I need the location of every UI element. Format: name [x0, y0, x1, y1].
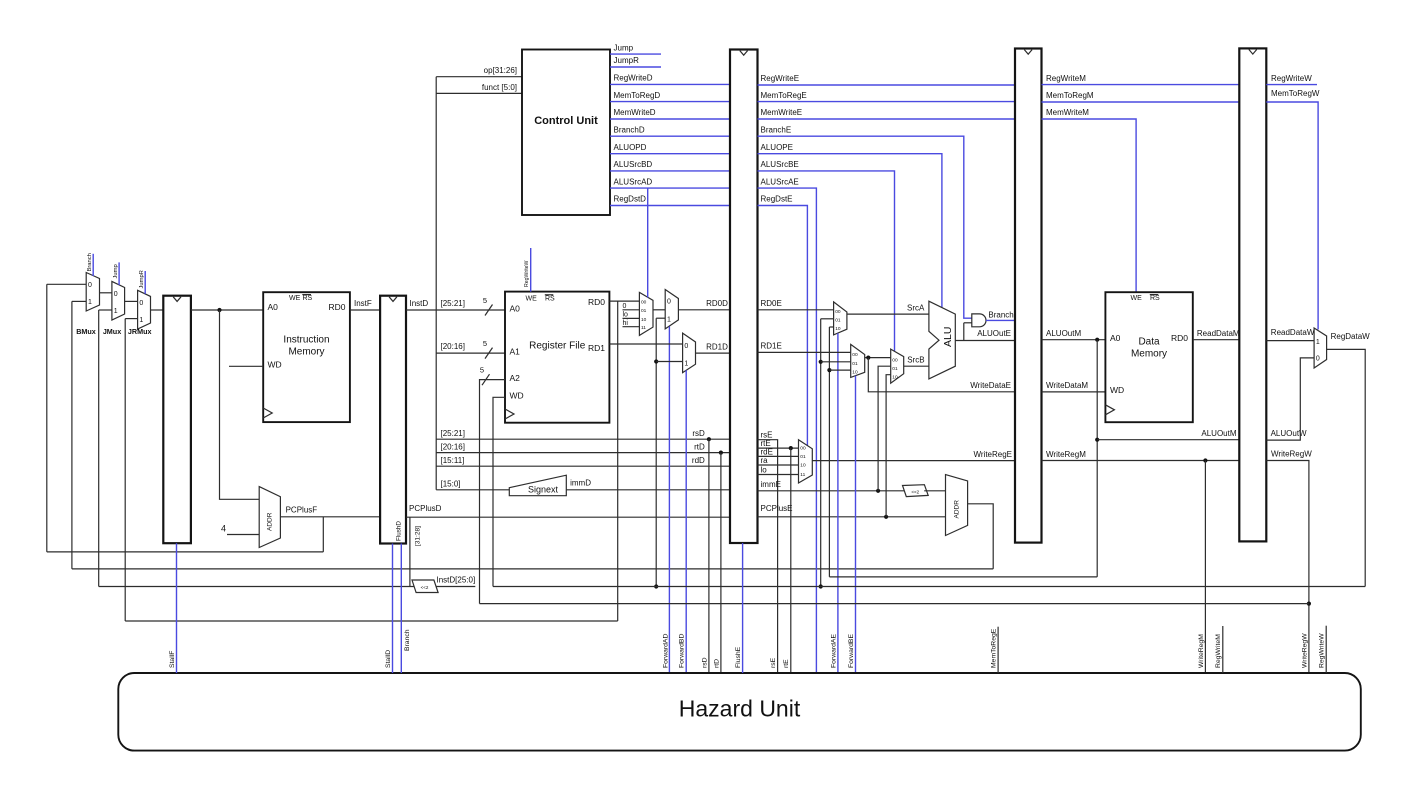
svg-text:A2: A2: [510, 373, 521, 383]
svg-text:MemToRegE: MemToRegE: [991, 628, 998, 668]
svg-text:ALUSrcAE: ALUSrcAE: [761, 177, 799, 186]
svg-text:WriteRegW: WriteRegW: [1271, 450, 1312, 459]
wire WriteRegW loopback to RF A2 (L6): [480, 603, 1309, 605]
svg-text:10: 10: [641, 317, 647, 323]
wire rs value down to JRMux loop (L5): [617, 301, 619, 621]
svg-text:PCPlusF: PCPlusF: [286, 506, 318, 515]
svg-text:RD0: RD0: [328, 302, 345, 312]
mux hi/lo (4-way): [639, 292, 653, 335]
wire riser BMux input 0: [46, 284, 48, 552]
svg-text:Instruction: Instruction: [283, 335, 329, 346]
wire RD1 to RD1D mux: [609, 343, 682, 345]
wire rsD down to Hazard Unit: [708, 439, 710, 672]
svg-text:ALUSrcBD: ALUSrcBD: [614, 160, 653, 169]
wire ForwardAD select from Hazard Unit: [668, 327, 670, 673]
wire immD to DE register: [566, 489, 730, 491]
wire op[31:26] into Control Unit: [436, 76, 522, 78]
block Data Memory: [1105, 292, 1192, 422]
wire ForwardBE select from Hazard Unit: [855, 376, 857, 673]
wire rsE down to Hazard Unit: [758, 440, 778, 673]
wire MemToRegW down to RegData mux select: [1266, 102, 1318, 330]
svg-text:ALU: ALU: [942, 327, 954, 347]
wire into SrcA mux input 10: [829, 326, 833, 328]
wire JumpR: [610, 66, 661, 68]
svg-text:RegWriteW: RegWriteW: [1271, 74, 1312, 83]
svg-text:ForwardBE: ForwardBE: [848, 634, 855, 668]
svg-text:MemToRegW: MemToRegW: [1271, 89, 1320, 98]
svg-text:01: 01: [835, 318, 841, 324]
wire ALUOutM to Data Memory A0: [1042, 339, 1106, 341]
svg-text:ADDR: ADDR: [267, 512, 274, 531]
wire WriteRegW down to Hazard Unit: [1266, 461, 1309, 673]
mux WriteRegE (4-way): [799, 440, 813, 483]
wire JRMux output to PC register: [151, 309, 164, 311]
svg-text:MemWriteD: MemWriteD: [614, 108, 656, 117]
wire ReadDataM to MW register: [1193, 339, 1240, 341]
wire PCPlusF to FlushD register: [280, 516, 380, 518]
svg-text:RD1D: RD1D: [706, 342, 728, 351]
svg-text:10: 10: [852, 370, 858, 376]
wire 0 stub into hi/lo mux: [623, 309, 640, 311]
svg-text:5: 5: [480, 366, 484, 375]
wire WriteDataM to Data Memory WD: [1042, 391, 1106, 393]
svg-text:0: 0: [114, 291, 118, 298]
svg-text:0: 0: [1316, 356, 1320, 363]
svg-text:WE: WE: [526, 295, 538, 302]
svg-text:rdD: rdD: [692, 456, 705, 465]
wire MemWriteD: [610, 118, 730, 120]
wire lo into WriteReg mux: [758, 474, 799, 476]
svg-text:1: 1: [114, 308, 118, 315]
svg-text:1: 1: [1316, 339, 1320, 346]
svg-text:ALUOPE: ALUOPE: [761, 143, 793, 152]
svg-text:<<2: <<2: [911, 489, 919, 494]
svg-text:RegWriteW: RegWriteW: [524, 260, 530, 287]
svg-text:MemToRegD: MemToRegD: [614, 91, 661, 100]
svg-text:[20:16]: [20:16]: [441, 443, 465, 452]
svg-text:lo: lo: [761, 466, 768, 475]
svg-text:WriteRegM: WriteRegM: [1046, 450, 1086, 459]
mux RegDataW: [1314, 328, 1327, 368]
wire rtE down to Hazard Unit: [790, 448, 792, 672]
svg-text:JRMux: JRMux: [128, 327, 152, 336]
mux SrcB select: [891, 349, 904, 383]
wire StallD from FlushD register to Hazard Unit: [392, 544, 394, 674]
overline DM RS: [1150, 294, 1159, 296]
wire ALUOutE to EM register: [955, 340, 1015, 342]
junction writeback forward: [819, 360, 823, 364]
svg-text:ReadDataM: ReadDataM: [1197, 329, 1240, 338]
junction rtD: [719, 451, 723, 455]
wire ra into WriteReg mux: [758, 464, 799, 466]
svg-text:RD0D: RD0D: [706, 299, 728, 308]
svg-text:ForwardAE: ForwardAE: [830, 634, 837, 668]
svg-text:11: 11: [641, 325, 646, 331]
svg-text:[15:0]: [15:0]: [441, 480, 461, 489]
wire ALUOutM down (forward + MW): [1096, 340, 1098, 577]
adder PCPlusF (ADDR): [259, 487, 280, 548]
svg-text:10: 10: [892, 375, 898, 381]
wire into JMux input 1: [99, 309, 112, 311]
svg-text:StallD: StallD: [385, 650, 392, 668]
svg-text:Data: Data: [1138, 337, 1160, 348]
svg-text:ADDR: ADDR: [954, 500, 961, 519]
wire RegWriteW blue stub into RF WE: [530, 248, 532, 292]
junction ALUOutM lower: [1095, 438, 1099, 442]
adder branch (ADDR): [946, 475, 968, 536]
wire RegDataW down: [1327, 349, 1366, 586]
wire SrcA to ALU: [847, 313, 929, 315]
wire riser JRMux input 1: [124, 319, 126, 621]
wire into BMux input 1: [72, 300, 86, 302]
block Signext: [509, 475, 566, 496]
svg-text:10: 10: [835, 326, 841, 332]
block Instruction Memory: [263, 292, 350, 422]
svg-text:rtD: rtD: [713, 659, 720, 668]
svg-text:[31:28]: [31:28]: [414, 526, 421, 546]
svg-text:WriteRegE: WriteRegE: [973, 450, 1012, 459]
wire rtD down to Hazard Unit: [720, 453, 722, 673]
junction PC line: [217, 308, 221, 312]
mux RD1D forward: [683, 333, 696, 373]
wire RegWriteW stub into Hazard Unit: [1325, 626, 1327, 673]
block Register File: [505, 292, 609, 423]
wire branch target down to loopback L2: [968, 504, 994, 569]
wire PCPlusE up to SrcB mux input 10: [886, 375, 891, 517]
svg-text:RD0: RD0: [588, 297, 605, 307]
wire lo stub into hi/lo mux: [623, 317, 640, 319]
svg-text:00: 00: [800, 446, 806, 452]
wire rtE into WriteReg mux: [758, 447, 799, 449]
svg-text:0: 0: [684, 343, 688, 350]
wire FlushE from DE register to Hazard Unit: [742, 543, 744, 673]
svg-text:StallF: StallF: [169, 651, 176, 668]
wire into SrcB mux input 01: [821, 361, 851, 363]
wire RegWriteM stub into Hazard Unit: [1222, 626, 1224, 673]
svg-text:ForwardBD: ForwardBD: [679, 634, 686, 668]
wire ALUSrcBD: [610, 170, 730, 172]
wire ALUSrcAD: [610, 187, 730, 189]
svg-text:RegDstD: RegDstD: [614, 195, 647, 204]
wire RD1E to SrcB mux: [758, 351, 851, 353]
svg-text:RD0: RD0: [1171, 333, 1188, 343]
junction decode forward: [654, 359, 658, 363]
svg-text:hi: hi: [623, 320, 629, 327]
svg-text:InstD: InstD: [410, 299, 429, 308]
svg-text:PCPlusE: PCPlusE: [761, 504, 793, 513]
svg-text:BranchE: BranchE: [761, 125, 792, 134]
svg-text:A1: A1: [510, 347, 521, 357]
wire PC+4 loopback to BMux0 (L1): [47, 551, 324, 553]
svg-text:Jump: Jump: [113, 264, 119, 278]
wire PCPlusD: [406, 516, 730, 518]
svg-text:1: 1: [88, 299, 92, 306]
svg-text:00: 00: [892, 357, 898, 363]
svg-text:A0: A0: [510, 303, 521, 313]
svg-text:1: 1: [139, 317, 143, 324]
svg-text:0: 0: [88, 282, 92, 289]
wire [20:16] to Register File A1: [436, 352, 505, 354]
svg-text:InstF: InstF: [354, 299, 372, 308]
svg-text:ALUSrcAD: ALUSrcAD: [614, 177, 653, 186]
wire MemToRegD: [610, 101, 730, 103]
svg-text:RegDstE: RegDstE: [761, 195, 793, 204]
svg-text:[20:16]: [20:16]: [441, 342, 465, 351]
wire riser BMux input 1: [71, 301, 73, 569]
svg-text:PCPlusD: PCPlusD: [409, 504, 442, 513]
svg-text:rsD: rsD: [692, 429, 705, 438]
wire RD1D to DE register: [696, 352, 731, 354]
junction rsD: [707, 437, 711, 441]
svg-text:[15:11]: [15:11]: [441, 456, 465, 465]
svg-text:immE: immE: [761, 480, 781, 489]
svg-text:Jump: Jump: [614, 43, 634, 52]
svg-text:JumpR: JumpR: [614, 56, 640, 65]
wire RD0E to SrcA mux: [758, 309, 834, 311]
svg-text:ra: ra: [761, 456, 769, 465]
wire WriteDataE to EM register: [868, 358, 1015, 392]
svg-text:WE: WE: [289, 295, 301, 302]
svg-text:A0: A0: [1110, 333, 1121, 343]
svg-text:ALUOutW: ALUOutW: [1271, 429, 1307, 438]
svg-text:InstD[25:0]: InstD[25:0]: [437, 576, 476, 585]
svg-text:WD: WD: [1110, 385, 1124, 395]
svg-text:WriteDataM: WriteDataM: [1046, 381, 1088, 390]
wire WriteRegW riser to RF A2: [480, 380, 506, 604]
svg-text:01: 01: [800, 454, 806, 460]
svg-text:JumpR: JumpR: [139, 270, 145, 288]
junction WriteDataE tap: [866, 356, 870, 360]
junction ALUOutM: [1095, 338, 1099, 342]
svg-text:RegDataW: RegDataW: [1331, 332, 1371, 341]
wire constant 4 into adder: [227, 534, 259, 536]
wire PC down to PCPlusF adder input: [220, 310, 260, 499]
wire ForwardBD select from Hazard Unit: [685, 370, 687, 672]
svg-text:ALUOPD: ALUOPD: [614, 143, 647, 152]
wire into SrcA mux input 01: [821, 318, 834, 320]
wire ALUOutW to RegData mux: [1266, 358, 1314, 440]
svg-text:Branch: Branch: [87, 253, 93, 271]
mux SrcA forward: [834, 302, 847, 335]
wire ForwardAE select from Hazard Unit: [837, 333, 839, 672]
mux JMux: [112, 281, 125, 320]
svg-text:Hazard Unit: Hazard Unit: [679, 695, 801, 721]
wire RegWriteD: [610, 83, 730, 85]
svg-text:RD1: RD1: [588, 343, 605, 353]
svg-text:WD: WD: [268, 360, 282, 370]
wire into SrcB mux input 10: [829, 369, 850, 371]
wire RegDataW riser to RF WD: [493, 397, 505, 586]
wire RegDstD: [610, 205, 730, 207]
svg-text:Signext: Signext: [528, 484, 559, 494]
svg-text:<<2: <<2: [421, 585, 429, 590]
register MEM/WB: [1239, 48, 1266, 541]
wire into BMux input 0: [47, 283, 86, 285]
wire writeback value riser (decode forwards): [655, 318, 657, 586]
svg-text:rsD: rsD: [701, 657, 708, 668]
wire PCPlusE to branch adder: [758, 516, 946, 518]
block Hazard Unit: [118, 673, 1361, 751]
wire JMux output to JRMux0: [125, 300, 138, 302]
wire into RD0D mux input 1: [656, 317, 665, 319]
svg-text:11: 11: [800, 472, 805, 478]
wire WriteRegE to EM register: [812, 460, 1015, 462]
wire JumpR select stub into JRMux: [144, 271, 146, 294]
shifter branch <<2: [903, 485, 929, 497]
wire RegWriteE: [758, 84, 1016, 86]
wire WriteRegM down to Hazard Unit: [1204, 461, 1206, 673]
register PC: [163, 296, 191, 544]
wire branch target loopback to BMux1 (L2): [72, 568, 993, 570]
svg-text:[25:21]: [25:21]: [441, 299, 465, 308]
wire ALU zero to AND gate: [963, 323, 965, 341]
wire jump target loopback to JMux1 (L3): [99, 586, 476, 588]
svg-text:00: 00: [641, 300, 647, 306]
svg-text:0: 0: [139, 300, 143, 307]
wire [31:28] tap down to jump target: [409, 517, 411, 586]
wire RD0 to hi/lo mux: [609, 300, 639, 302]
wire ALUOutM forward riser: [828, 327, 830, 577]
svg-text:ForwardAD: ForwardAD: [662, 634, 669, 668]
wire rtD: [436, 452, 730, 454]
svg-text:01: 01: [852, 361, 858, 367]
wire BranchE to AND gate: [758, 136, 972, 318]
junction immE: [876, 489, 880, 493]
junction WriteRegW loop: [1307, 602, 1311, 606]
wire immE: [758, 490, 906, 492]
wire into AND gate lower input: [964, 322, 972, 324]
svg-text:Memory: Memory: [288, 347, 324, 358]
wire writeback forward riser (execute): [820, 319, 822, 587]
svg-text:RegWriteW: RegWriteW: [1319, 633, 1326, 668]
shifter jump <<2: [412, 580, 438, 593]
svg-text:10: 10: [800, 463, 806, 469]
wire InstF: [350, 309, 380, 311]
svg-text:MemToRegM: MemToRegM: [1046, 91, 1094, 100]
wire RegDstE to WriteReg mux select: [758, 206, 808, 446]
wire into RD1D mux input 1: [656, 361, 682, 363]
svg-text:MemToRegE: MemToRegE: [761, 91, 807, 100]
wire RegWriteW stub: [1266, 84, 1317, 86]
junction PCPlusE: [884, 515, 888, 519]
wire Branch to EM register: [986, 319, 1015, 321]
svg-text:SrcA: SrcA: [907, 304, 925, 313]
svg-text:01: 01: [641, 308, 647, 314]
wire hi stub into hi/lo mux: [623, 326, 640, 328]
junction WriteRegM: [1203, 458, 1207, 462]
svg-text:ALUOutM: ALUOutM: [1201, 429, 1236, 438]
svg-text:op[31:26]: op[31:26]: [484, 66, 517, 75]
wire Branch down to Hazard Unit: [400, 544, 402, 674]
svg-text:5: 5: [483, 296, 487, 305]
wire rdD: [436, 465, 730, 467]
svg-text:Branch: Branch: [988, 310, 1013, 319]
wire RegDataW loopback to RF WD (L4): [493, 586, 1365, 588]
svg-text:BranchD: BranchD: [614, 125, 645, 134]
wire Jump select stub into JMux: [118, 262, 120, 285]
svg-text:01: 01: [892, 366, 898, 372]
svg-text:ALUSrcBE: ALUSrcBE: [761, 160, 799, 169]
wire immE up to SrcB mux input 01: [878, 366, 891, 491]
svg-text:Memory: Memory: [1131, 349, 1167, 360]
svg-text:RS: RS: [1150, 295, 1160, 302]
wire BMux output to JMux0: [100, 292, 112, 294]
svg-text:RegWriteM: RegWriteM: [1215, 634, 1222, 668]
svg-text:A0: A0: [268, 302, 279, 312]
wire MemWriteE: [758, 118, 1016, 120]
wire StallF from PC register to Hazard Unit: [176, 543, 178, 673]
mux SrcB forward: [851, 344, 865, 377]
wire RD0D to DE register: [678, 309, 730, 311]
svg-text:RD0E: RD0E: [761, 299, 782, 308]
svg-text:rtD: rtD: [694, 443, 705, 452]
wire ALUOPD: [610, 153, 730, 155]
wire ALUOutM forward loop: [829, 576, 1097, 578]
wire riser JMux input 1: [98, 310, 100, 587]
register EX/MEM: [1015, 49, 1042, 543]
junction on RegDataW loop: [819, 584, 823, 588]
svg-text:JMux: JMux: [103, 327, 121, 336]
svg-text:RS: RS: [303, 295, 313, 302]
wire ALUOPE to ALU: [758, 154, 942, 308]
wire PC to Instruction Memory A0: [191, 309, 263, 311]
wire ReadDataW to RegData mux: [1266, 340, 1314, 342]
wire RegWriteM: [1042, 84, 1240, 86]
alu ALU: [929, 301, 955, 379]
svg-text:4: 4: [221, 524, 226, 534]
mux BMux: [86, 273, 99, 312]
register ID/EX: [730, 50, 758, 544]
wire MemToRegM: [1042, 101, 1240, 103]
svg-text:RegWriteD: RegWriteD: [614, 74, 653, 83]
svg-text:RegWriteE: RegWriteE: [761, 74, 800, 83]
mux JRMux: [138, 290, 151, 329]
svg-text:ALUOutE: ALUOutE: [977, 329, 1011, 338]
svg-text:lo: lo: [623, 312, 629, 319]
svg-text:0: 0: [623, 303, 627, 310]
wire ALUSrcAE down to Hazard Unit: [758, 188, 817, 672]
svg-text:1: 1: [667, 317, 671, 324]
svg-text:5: 5: [483, 339, 487, 348]
svg-text:1: 1: [684, 361, 688, 368]
wire jump-register target loopback to JRMux1 (L5): [125, 620, 618, 622]
svg-text:RD1E: RD1E: [761, 342, 782, 351]
svg-text:RegWriteM: RegWriteM: [1046, 74, 1086, 83]
svg-text:Register File: Register File: [529, 341, 586, 352]
wire SrcB forward mux output: [865, 357, 891, 359]
svg-text:funct [5:0]: funct [5:0]: [482, 83, 517, 92]
svg-text:WriteDataE: WriteDataE: [970, 381, 1011, 390]
gate AND branch: [972, 314, 986, 327]
wire Branch select stub into BMux: [92, 254, 94, 276]
svg-text:0: 0: [667, 299, 671, 306]
svg-text:[25:21]: [25:21]: [441, 429, 465, 438]
svg-text:BMux: BMux: [76, 327, 96, 336]
svg-text:MemWriteM: MemWriteM: [1046, 108, 1089, 117]
svg-text:00: 00: [835, 309, 841, 315]
wire into JRMux input 1: [125, 318, 137, 320]
svg-text:RS: RS: [545, 295, 555, 302]
svg-text:WriteRegW: WriteRegW: [1301, 633, 1308, 668]
svg-text:Branch: Branch: [404, 629, 411, 651]
register IF/ID (FlushD): [380, 296, 406, 544]
wire funct[5:0] into Control Unit: [436, 92, 522, 94]
svg-text:FlushE: FlushE: [735, 646, 742, 668]
svg-text:SrcB: SrcB: [907, 355, 924, 364]
junction ALUOutM forward: [827, 368, 831, 372]
wire PCPlusF down to loopback L1: [322, 517, 324, 552]
wire IM WD stub: [229, 365, 263, 367]
